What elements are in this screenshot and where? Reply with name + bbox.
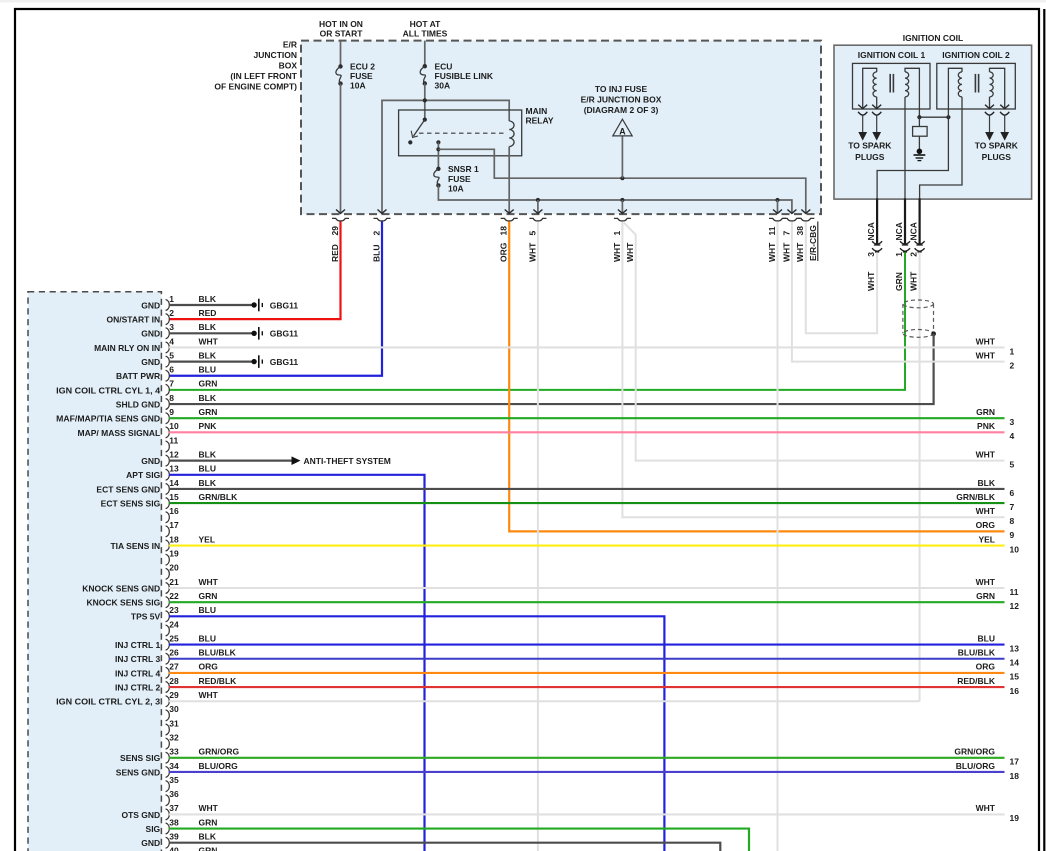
- svg-text:BLU/BLK: BLU/BLK: [199, 648, 237, 658]
- svg-text:6: 6: [1010, 488, 1015, 498]
- svg-text:BLK: BLK: [199, 449, 217, 459]
- svg-text:18: 18: [1010, 771, 1020, 781]
- svg-text:NCA: NCA: [909, 222, 919, 240]
- svg-text:ORG: ORG: [199, 662, 219, 672]
- svg-text:GRN: GRN: [976, 407, 995, 417]
- svg-text:BATT PWR: BATT PWR: [116, 371, 160, 381]
- ECM pin 12 GND: [141, 449, 391, 466]
- svg-text:GRN: GRN: [199, 817, 218, 827]
- right terminal 11 WHT: [976, 577, 1019, 597]
- svg-text:OTS GND: OTS GND: [121, 810, 160, 820]
- svg-text:8: 8: [169, 393, 174, 403]
- ECM connector box (dashed): [28, 292, 161, 851]
- relay actuator dashed link: [419, 132, 506, 134]
- svg-text:2: 2: [1010, 360, 1015, 370]
- NCA wire to terminal 3: [876, 198, 878, 244]
- ignition coil 2 core: [974, 74, 976, 93]
- svg-text:OR START: OR START: [320, 29, 364, 39]
- wire bus branch to pin 1: [621, 200, 623, 213]
- svg-text:BLK: BLK: [199, 478, 217, 488]
- svg-text:WHT: WHT: [866, 271, 876, 291]
- ECM pin 13 APT SIG: [126, 464, 424, 851]
- ECM pin 22 KNOCK SENS SIG: [87, 591, 1005, 608]
- svg-text:GND: GND: [141, 456, 160, 466]
- svg-text:10: 10: [169, 421, 179, 431]
- svg-text:GND: GND: [141, 357, 160, 367]
- right terminal 10 YEL: [978, 534, 1019, 554]
- svg-text:24: 24: [169, 619, 179, 629]
- ignition coil 2 box: [937, 63, 1016, 109]
- svg-text:OF ENGINE COMPT): OF ENGINE COMPT): [214, 81, 297, 91]
- ECM pin 39 GND: [141, 832, 720, 851]
- svg-text:4: 4: [169, 336, 174, 346]
- ECM pin 11: [166, 435, 179, 452]
- svg-text:8: 8: [1010, 516, 1015, 526]
- svg-text:3: 3: [169, 322, 174, 332]
- svg-text:BLK: BLK: [199, 294, 217, 304]
- svg-text:33: 33: [169, 747, 179, 757]
- junction box pin 5 connector: [529, 218, 546, 221]
- svg-text:10: 10: [1010, 544, 1020, 554]
- svg-text:11: 11: [767, 226, 777, 235]
- ECM pin 40: [166, 846, 218, 851]
- svg-text:GRN: GRN: [199, 379, 218, 389]
- ignition coil 1 box: [853, 63, 931, 109]
- svg-text:GBG11: GBG11: [270, 329, 299, 339]
- svg-text:ECU 2: ECU 2: [350, 61, 375, 71]
- svg-text:WHT: WHT: [976, 577, 996, 587]
- junction box pin 7 connector: [783, 218, 800, 221]
- svg-text:31: 31: [169, 718, 179, 728]
- svg-text:9: 9: [1010, 530, 1015, 540]
- svg-text:37: 37: [169, 803, 179, 813]
- right terminal 18 BLU/ORG: [956, 761, 1019, 781]
- wire BLK shield drain to ECM pin 8: [169, 334, 934, 404]
- wire GRN ignition coil terminal 1 to ECM pin 7: [169, 252, 905, 390]
- ECM pin 4 MAIN RLY ON IN: [94, 336, 1004, 353]
- ECM pin 20: [166, 563, 179, 580]
- wire SNSR fuse to relay output bus y=200: [438, 185, 792, 213]
- svg-text:14: 14: [169, 478, 179, 488]
- svg-text:5: 5: [1010, 459, 1015, 469]
- junction box pin 38 connector: [797, 218, 814, 221]
- svg-text:2: 2: [169, 308, 174, 318]
- ECM pin 16: [166, 506, 179, 523]
- ECM pin 35: [166, 775, 179, 792]
- svg-text:YEL: YEL: [199, 534, 216, 544]
- wire WHT junction pin 11 down off page: [777, 222, 779, 851]
- svg-text:(IN LEFT FRONT: (IN LEFT FRONT: [230, 71, 297, 81]
- ignition coil 1 core: [889, 74, 891, 93]
- wire coil2 primary to NCA exit (WHT 2): [920, 97, 962, 198]
- svg-text:22: 22: [169, 591, 179, 601]
- wire WHT junction pin 1 to right terminal 8: [622, 222, 1004, 518]
- relay coil: [509, 121, 514, 147]
- svg-text:NCA: NCA: [866, 222, 876, 240]
- svg-text:IGN COIL CTRL CYL 1, 4: IGN COIL CTRL CYL 1, 4: [56, 385, 160, 395]
- right terminal 4 PNK: [977, 421, 1014, 441]
- svg-text:39: 39: [169, 832, 179, 842]
- shield (dashed cylinder) around GRN wire: [903, 300, 934, 337]
- svg-text:BLU/ORG: BLU/ORG: [956, 761, 996, 771]
- wire RED junction pin 29 to ECM pin 2: [169, 222, 341, 320]
- svg-text:25: 25: [169, 633, 179, 643]
- ECM pin 14 ECT SENS GND: [96, 478, 1004, 495]
- svg-text:TPS 5V: TPS 5V: [131, 612, 161, 622]
- ECM pin 34 SENS GND: [116, 761, 1005, 778]
- ECM pin 5 GND: [141, 350, 298, 368]
- junction box pin 29 connector: [332, 218, 349, 221]
- svg-text:INJ CTRL 3: INJ CTRL 3: [115, 654, 160, 664]
- svg-text:SNSR 1: SNSR 1: [448, 164, 479, 174]
- svg-text:WHT: WHT: [199, 803, 219, 813]
- svg-text:11: 11: [169, 435, 178, 445]
- right terminal 7 GRN/BLK: [956, 492, 1014, 512]
- svg-text:13: 13: [1010, 643, 1020, 653]
- wire ORG junction pin 18 to right terminal 9: [509, 222, 1004, 532]
- main relay box: [399, 110, 522, 156]
- svg-text:ON/START IN: ON/START IN: [107, 315, 161, 325]
- svg-text:MAF/MAP/TIA SENS GND: MAF/MAP/TIA SENS GND: [56, 414, 160, 424]
- svg-text:36: 36: [169, 789, 179, 799]
- svg-text:KNOCK SENS GND: KNOCK SENS GND: [82, 583, 160, 593]
- svg-text:BLK: BLK: [199, 393, 217, 403]
- svg-text:IGNITION COIL 1: IGNITION COIL 1: [858, 50, 926, 60]
- svg-text:16: 16: [169, 506, 179, 516]
- svg-text:38: 38: [169, 817, 179, 827]
- svg-text:20: 20: [169, 563, 179, 573]
- svg-text:YEL: YEL: [978, 534, 995, 544]
- ECM pin 10 MAP/ MASS SIGNAL: [78, 421, 1005, 438]
- ECM pin 1 GND: [141, 294, 298, 312]
- svg-text:29: 29: [169, 690, 179, 700]
- svg-text:12: 12: [1010, 601, 1020, 611]
- svg-text:(DIAGRAM 2 OF 3): (DIAGRAM 2 OF 3): [584, 105, 659, 115]
- E/R junction box label: [214, 39, 297, 91]
- svg-text:E/R: E/R: [283, 39, 297, 49]
- right terminal 5 WHT: [976, 449, 1015, 469]
- svg-text:BLU: BLU: [199, 633, 216, 643]
- wire contact to pin 38 bus y=178: [438, 149, 805, 213]
- svg-text:17: 17: [169, 520, 179, 530]
- svg-text:1: 1: [1010, 346, 1015, 356]
- wire hot-at-all-times feed to fusible link: [424, 41, 426, 65]
- svg-text:PLUGS: PLUGS: [982, 152, 1012, 162]
- svg-text:GRN: GRN: [894, 272, 904, 291]
- svg-text:11: 11: [1010, 587, 1019, 597]
- svg-text:BLU: BLU: [199, 605, 216, 615]
- ECM pin 32: [166, 732, 179, 749]
- svg-text:GRN/BLK: GRN/BLK: [199, 492, 239, 502]
- svg-text:MAIN RLY ON IN: MAIN RLY ON IN: [94, 343, 160, 353]
- svg-text:GRN/ORG: GRN/ORG: [199, 747, 240, 757]
- ECM pin 27 INJ CTRL 4: [115, 662, 1004, 679]
- coil 2 spark plug outputs: [985, 105, 994, 109]
- ignition coil 2 secondary winding: [990, 68, 1005, 109]
- resistor (condenser): [918, 117, 920, 126]
- ECM pin 6 BATT PWR: [116, 365, 216, 382]
- svg-text:1: 1: [894, 252, 904, 257]
- svg-text:A: A: [619, 127, 626, 137]
- svg-text:ECT SENS SIG: ECT SENS SIG: [101, 499, 161, 509]
- ECM pin 21 KNOCK SENS GND: [82, 577, 1004, 594]
- right terminal 3 GRN: [976, 407, 1014, 427]
- ECM pin 28 INJ CTRL 2: [115, 676, 1004, 693]
- svg-text:GND: GND: [141, 329, 160, 339]
- svg-text:10A: 10A: [350, 80, 366, 90]
- svg-text:GRN: GRN: [976, 591, 995, 601]
- ECM pin 24: [166, 619, 179, 636]
- svg-text:ALL TIMES: ALL TIMES: [403, 29, 448, 39]
- svg-text:30: 30: [169, 704, 179, 714]
- svg-text:6: 6: [169, 365, 174, 375]
- svg-text:5: 5: [169, 350, 174, 360]
- svg-text:SHLD GND: SHLD GND: [116, 399, 160, 409]
- svg-text:28: 28: [169, 676, 179, 686]
- wire fusible link to relay feed node: [424, 84, 426, 120]
- svg-text:WHT: WHT: [795, 242, 805, 262]
- svg-text:INJ CTRL 1: INJ CTRL 1: [115, 640, 160, 650]
- svg-text:RED/BLK: RED/BLK: [957, 676, 996, 686]
- svg-text:3: 3: [866, 252, 876, 257]
- svg-text:BLK: BLK: [199, 322, 217, 332]
- svg-text:WHT: WHT: [781, 242, 791, 262]
- svg-text:BLU/BLK: BLU/BLK: [958, 648, 996, 658]
- NCA wire to terminal 1: [904, 198, 906, 244]
- fuse ECU FUSIBLE LINK 30A: [423, 64, 427, 68]
- wire hot-in-on feed to ECU 2 fuse: [340, 41, 342, 65]
- svg-text:INJ CTRL 4: INJ CTRL 4: [115, 668, 160, 678]
- svg-text:15: 15: [169, 492, 179, 502]
- right terminal 17 GRN/ORG: [954, 747, 1019, 767]
- svg-text:16: 16: [1010, 686, 1020, 696]
- wire coil2 B+ down-left to NCA exit (WHT 3): [877, 117, 948, 198]
- svg-text:5: 5: [527, 231, 537, 236]
- svg-text:WHT: WHT: [976, 506, 996, 516]
- svg-text:ORG: ORG: [976, 662, 996, 672]
- svg-text:19: 19: [1010, 813, 1020, 823]
- svg-text:32: 32: [169, 732, 179, 742]
- ECM pin 26 INJ CTRL 3: [115, 648, 1004, 665]
- svg-text:7: 7: [1010, 502, 1015, 512]
- svg-text:SIG: SIG: [146, 824, 161, 834]
- ECM pin 31: [166, 718, 179, 735]
- svg-text:PNK: PNK: [977, 421, 996, 431]
- svg-text:E/R JUNCTION BOX: E/R JUNCTION BOX: [581, 95, 662, 105]
- svg-text:MAP/ MASS SIGNAL: MAP/ MASS SIGNAL: [78, 428, 161, 438]
- ECM pin 33 SENS SIG: [120, 747, 1004, 764]
- svg-text:9: 9: [169, 407, 174, 417]
- svg-text:APT SIG: APT SIG: [126, 470, 160, 480]
- ECM pin 29 IGN COIL CTRL CYL 2, 3: [56, 690, 919, 707]
- svg-text:TO SPARK: TO SPARK: [975, 141, 1019, 151]
- fuse ECU 2 FUSE 10A: [338, 64, 342, 68]
- svg-text:WHT: WHT: [199, 577, 219, 587]
- right terminal 16 RED/BLK: [957, 676, 1019, 696]
- ECM pin 18 TIA SENS IN: [110, 534, 1004, 551]
- svg-text:10A: 10A: [448, 183, 464, 193]
- svg-text:HOT AT: HOT AT: [410, 19, 441, 29]
- right terminal 14 BLU/BLK: [958, 648, 1020, 668]
- svg-text:GND: GND: [141, 300, 160, 310]
- wire WHT junction pin 7 to right terminal 2: [792, 222, 1005, 362]
- svg-text:WHT: WHT: [976, 350, 996, 360]
- svg-text:PNK: PNK: [199, 421, 218, 431]
- wire BLU junction pin 2 to ECM pin 6: [169, 222, 382, 376]
- wire relay coil to pin 18 exit: [508, 147, 510, 214]
- svg-text:BLK: BLK: [199, 350, 217, 360]
- connector symbol A to INJ fuse: [621, 136, 623, 178]
- svg-text:30A: 30A: [435, 80, 451, 90]
- svg-text:ECU: ECU: [435, 61, 453, 71]
- right terminal 8 WHT: [976, 506, 1015, 526]
- svg-text:WHT: WHT: [976, 803, 996, 813]
- svg-text:40: 40: [169, 846, 179, 851]
- ground symbol inside ignition coil: [917, 149, 923, 155]
- svg-text:BLU: BLU: [978, 633, 995, 643]
- svg-text:GRN: GRN: [199, 846, 218, 851]
- ECM pin 19: [166, 549, 179, 566]
- svg-text:BOX: BOX: [279, 60, 298, 70]
- svg-text:WHT: WHT: [976, 449, 996, 459]
- svg-text:INJ CTRL 2: INJ CTRL 2: [115, 682, 160, 692]
- svg-text:FUSE: FUSE: [350, 71, 373, 81]
- svg-text:FUSE: FUSE: [448, 174, 471, 184]
- svg-text:13: 13: [169, 464, 179, 474]
- svg-text:SENS SIG: SENS SIG: [120, 753, 161, 763]
- svg-text:WHT: WHT: [612, 242, 622, 262]
- ECM pin 25 INJ CTRL 1: [115, 633, 1004, 650]
- right terminal 15 ORG: [976, 662, 1020, 682]
- svg-text:RELAY: RELAY: [526, 116, 554, 126]
- shield drain node: [931, 331, 936, 336]
- svg-text:BLK: BLK: [199, 832, 217, 842]
- svg-text:18: 18: [499, 226, 509, 236]
- svg-text:RED: RED: [199, 308, 217, 318]
- svg-text:GRN/BLK: GRN/BLK: [956, 492, 996, 502]
- svg-text:1: 1: [612, 231, 622, 236]
- svg-text:WHT: WHT: [976, 336, 996, 346]
- svg-text:IGN COIL CTRL CYL 2, 3: IGN COIL CTRL CYL 2, 3: [56, 697, 160, 707]
- ECM pin 8 SHLD GND: [116, 393, 217, 410]
- svg-text:GBG11: GBG11: [270, 300, 299, 310]
- svg-text:GRN: GRN: [199, 591, 218, 601]
- ECM pin 36: [166, 789, 179, 806]
- svg-text:JUNCTION: JUNCTION: [254, 50, 297, 60]
- relay switch: [423, 118, 427, 122]
- wire ECU 2 fuse to pin 29 exit: [340, 84, 342, 214]
- junction box pin 1 connector: [614, 218, 631, 221]
- svg-text:WHT: WHT: [909, 271, 919, 291]
- ECM pin 23 TPS 5V: [131, 605, 664, 851]
- ECM pin 30: [166, 704, 179, 721]
- svg-text:ECT SENS GND: ECT SENS GND: [96, 484, 160, 494]
- svg-text:12: 12: [169, 449, 179, 459]
- svg-text:7: 7: [781, 231, 791, 236]
- wire WHT junction pin 1 (second) to right terminal 5: [624, 223, 1005, 461]
- svg-text:18: 18: [169, 534, 179, 544]
- ECM pin 17: [166, 520, 179, 537]
- ignition coil 1 primary winding: [905, 68, 919, 117]
- svg-text:7: 7: [169, 379, 174, 389]
- svg-text:BLU: BLU: [371, 245, 381, 262]
- svg-text:GBG11: GBG11: [270, 357, 299, 367]
- junction box pin 11 connector: [769, 218, 786, 221]
- wire WHT ignition coil terminal 3 to junction pin 38: [806, 222, 877, 334]
- NCA wire to terminal 2: [918, 198, 920, 244]
- svg-text:38: 38: [795, 226, 805, 236]
- wire WHT ignition coil terminal 2 down to ECM pin 29 row: [919, 252, 921, 701]
- ECM pin 2 ON/START IN: [107, 308, 217, 325]
- svg-text:TO SPARK: TO SPARK: [848, 141, 892, 151]
- svg-text:NCA: NCA: [894, 222, 904, 240]
- right terminal 9 ORG: [976, 520, 1015, 540]
- svg-text:RED/BLK: RED/BLK: [199, 676, 238, 686]
- svg-text:19: 19: [169, 549, 179, 559]
- svg-text:TO INJ FUSE: TO INJ FUSE: [595, 84, 648, 94]
- svg-text:WHT: WHT: [199, 690, 219, 700]
- svg-text:ORG: ORG: [499, 242, 509, 262]
- svg-text:2: 2: [371, 231, 381, 236]
- ECM pin 7 IGN COIL CTRL CYL 1, 4: [56, 379, 217, 396]
- right terminal 19 WHT: [976, 803, 1020, 823]
- svg-text:BLU: BLU: [199, 365, 216, 375]
- svg-text:27: 27: [169, 662, 179, 672]
- junction box pin 18 connector: [501, 218, 518, 221]
- jumper coil1 B+ to coil2 B+: [919, 116, 948, 118]
- svg-text:BLU/ORG: BLU/ORG: [199, 761, 239, 771]
- svg-text:WHT: WHT: [199, 336, 219, 346]
- svg-text:E/R-CBG: E/R-CBG: [808, 225, 818, 261]
- wire feed bus y=100 (to BATT PWR drop and relay coil): [382, 100, 509, 214]
- fuse SNSR 1 FUSE 10A: [436, 167, 440, 171]
- ignition coil 1 secondary winding: [863, 68, 877, 109]
- wire bus branch to pin 5: [537, 200, 539, 213]
- right terminal 2 WHT: [976, 350, 1015, 370]
- svg-text:WHT: WHT: [625, 242, 635, 262]
- right terminal 12 GRN: [976, 591, 1019, 611]
- wire relay NO contact branch: [437, 142, 439, 168]
- ECM pin 15 ECT SENS SIG: [101, 492, 1005, 509]
- ECM pin 38 SIG: [146, 817, 749, 851]
- svg-text:GND: GND: [141, 838, 160, 848]
- svg-text:GRN/ORG: GRN/ORG: [954, 747, 995, 757]
- right terminal 6 BLK: [978, 478, 1015, 498]
- svg-text:15: 15: [1010, 672, 1020, 682]
- svg-text:4: 4: [1010, 431, 1015, 441]
- svg-text:FUSIBLE LINK: FUSIBLE LINK: [435, 71, 494, 81]
- ignition coil 2 primary winding: [948, 68, 962, 117]
- svg-text:35: 35: [169, 775, 179, 785]
- right terminal 13 BLU: [978, 633, 1020, 653]
- junction box pin 2 connector: [374, 218, 391, 221]
- svg-text:HOT IN ON: HOT IN ON: [319, 19, 363, 29]
- svg-text:3: 3: [1010, 417, 1015, 427]
- ignition coil assembly box: [834, 45, 1032, 199]
- svg-text:ORG: ORG: [976, 520, 996, 530]
- svg-text:26: 26: [169, 648, 179, 658]
- svg-text:29: 29: [330, 226, 340, 236]
- svg-text:TIA SENS IN: TIA SENS IN: [110, 541, 160, 551]
- svg-text:IGNITION COIL: IGNITION COIL: [903, 33, 963, 43]
- svg-text:SENS GND: SENS GND: [116, 767, 160, 777]
- E/R junction box (dashed): [301, 41, 821, 215]
- svg-text:34: 34: [169, 761, 179, 771]
- ECM pin 3 GND: [141, 322, 298, 340]
- svg-text:BLU: BLU: [199, 464, 216, 474]
- svg-text:PLUGS: PLUGS: [855, 152, 885, 162]
- svg-text:BLK: BLK: [978, 478, 996, 488]
